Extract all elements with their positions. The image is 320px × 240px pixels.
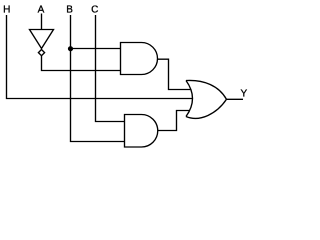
svg-text:C: C [91, 4, 98, 15]
svg-text:Y: Y [240, 89, 247, 100]
svg-text:A: A [38, 4, 45, 15]
svg-text:H: H [3, 4, 10, 15]
svg-text:B: B [66, 4, 73, 15]
